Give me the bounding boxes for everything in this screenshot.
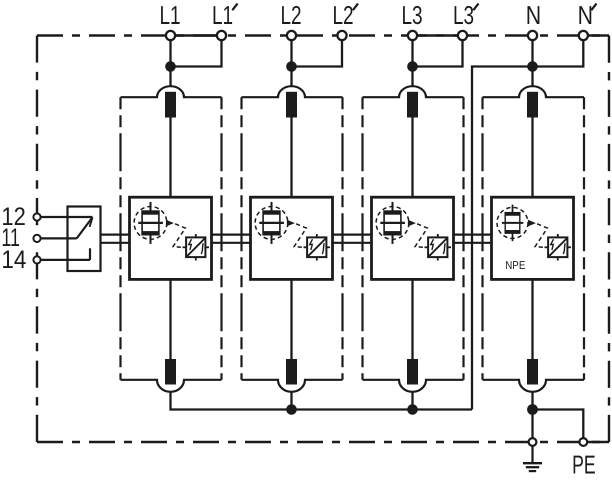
svg-text:L3: L3	[453, 0, 474, 30]
wire module L3 boundary bottom edge with crossover hop	[363, 380, 464, 392]
node bus-L3 junction dot	[407, 404, 418, 415]
wire module N boundary bottom edge with crossover hop	[483, 380, 585, 392]
wire L1 to L1´ terminal link	[171, 34, 222, 36]
wire module L2 output drop	[290, 392, 292, 410]
wire module L1 box to bottom plug contact	[169, 279, 171, 359]
terminal L1´	[217, 31, 226, 40]
disconnector with indication K4 module N	[545, 234, 572, 261]
wire plug contact to module N box	[531, 118, 533, 198]
terminal L3	[408, 31, 417, 40]
wire mechanical coupling lower line	[212, 242, 251, 244]
svg-text:N: N	[578, 0, 593, 30]
node bus-L2 junction dot	[286, 404, 297, 415]
wire plug contact to module L2 box	[290, 118, 292, 198]
svg-text:N: N	[526, 0, 541, 30]
wire module N boundary left side (dashed)	[481, 97, 483, 380]
switch S1 arm tip barb	[90, 217, 93, 227]
terminal L3´	[458, 31, 467, 40]
wire node L1 to module plug contact	[169, 67, 171, 86]
wire node N to module plug contact	[531, 67, 533, 86]
wire module N boundary right side (dashed)	[583, 97, 585, 380]
disconnector with indication K3 module L3	[425, 234, 452, 261]
node L2 junction dot	[286, 61, 297, 72]
ground symbol	[523, 446, 542, 471]
spark gap F4 (triggered, dashed circle) module N	[497, 205, 528, 242]
wire module L2 boundary right side (dashed)	[341, 97, 343, 380]
wire node L3 to module plug contact	[411, 67, 413, 86]
wire N terminal drop	[531, 36, 533, 67]
wire L3 to L3´ terminal link	[413, 34, 463, 36]
contact 14 fixed stub	[89, 248, 91, 260]
disconnector with indication K1 module L1	[183, 234, 210, 261]
plug contact top module L3	[407, 92, 418, 118]
trigger control dashed link module N	[535, 224, 547, 248]
svg-text:L2: L2	[332, 0, 353, 30]
wire module L1 boundary left side (dashed)	[119, 97, 121, 380]
wire module L1 boundary bottom edge with crossover hop	[121, 380, 222, 392]
wire module L3 boundary left side (dashed)	[361, 97, 363, 380]
wire module L3 boundary top edge with crossover hop	[363, 86, 464, 97]
terminal L2´	[337, 31, 346, 40]
wire N´ terminal drop and link to node N	[533, 36, 584, 67]
svg-text:NPE: NPE	[505, 260, 525, 272]
wire module L1 boundary right side (dashed)	[220, 97, 222, 380]
trigger arrow module L2	[287, 220, 295, 227]
terminal 12	[33, 213, 40, 220]
plug contact bottom module L3	[407, 359, 418, 385]
plug contact top module L1	[165, 92, 176, 118]
wire enclosure border left (dash-dot)	[36, 36, 38, 443]
wire terminal 11 lead	[37, 237, 77, 239]
node N junction dot	[527, 61, 538, 72]
terminal 14	[33, 256, 40, 263]
wire mechanical coupling lower line	[101, 242, 130, 244]
wire module L3 boundary right side (dashed)	[462, 97, 464, 380]
terminal L2	[287, 31, 296, 40]
terminal N´	[579, 31, 588, 40]
surge arrester module U1 (L1) box	[130, 197, 212, 279]
trigger arrow module N	[528, 220, 536, 227]
wire mechanical coupling lower line	[333, 242, 372, 244]
wire L2 terminal drop	[290, 36, 292, 67]
plug contact bottom module N	[527, 359, 538, 385]
wire module L3 output drop	[411, 392, 413, 410]
wire module L3 box to bottom plug contact	[411, 279, 413, 359]
trigger control dashed link module L3	[415, 224, 427, 248]
wire earth node to PE terminal	[533, 410, 584, 438]
plug contact top module N	[527, 92, 538, 118]
wire bus riser from bottom bus to node N	[472, 67, 533, 410]
wire plug contact to module L3 box	[411, 118, 413, 198]
wire enclosure border bottom (dash-dot)	[37, 441, 609, 443]
svg-text:L3: L3	[401, 0, 422, 30]
wire enclosure border top (dash-dot)	[37, 34, 609, 36]
wire terminal 12 lead	[37, 216, 93, 218]
terminal 11	[33, 235, 40, 242]
wire mechanical coupling lower line	[454, 242, 492, 244]
terminal N	[528, 31, 537, 40]
plug contact bottom module L1	[165, 359, 176, 385]
wire module L2 boundary top edge with crossover hop	[242, 86, 343, 97]
wire L1 terminal drop	[169, 36, 171, 67]
surge arrester module U3 (L3) box	[372, 197, 454, 279]
switch S1 changeover arm	[77, 217, 93, 238]
wire enclosure border right (dash-dot)	[608, 36, 610, 443]
svg-text:L1: L1	[159, 0, 180, 30]
spark gap F3 (triggered, dashed circle) module L3	[376, 202, 409, 244]
terminal earth (to ground symbol)	[529, 438, 537, 446]
wire mechanical coupling upper line	[101, 234, 130, 236]
svg-text:14: 14	[1, 246, 26, 274]
wire L3 terminal drop	[411, 36, 413, 67]
trigger arrow module L3	[408, 220, 416, 227]
wire node L2 to module plug contact	[290, 67, 292, 86]
wire terminal 14 lead	[37, 259, 90, 261]
wire N-PE arrester output drop	[531, 392, 533, 438]
wire module L2 boundary bottom edge with crossover hop	[242, 380, 343, 392]
wire bottom-right border corner segment (PE to corner)	[583, 441, 609, 443]
wire plug contact to module L1 box	[169, 118, 171, 198]
spark gap F1 (triggered, dashed circle) module L1	[134, 202, 167, 244]
wire top-right border corner segment	[583, 34, 609, 36]
wire module L1 boundary top edge with crossover hop	[121, 86, 222, 97]
wire L3´ terminal drop and link to node L3	[413, 36, 463, 67]
svg-text:L1: L1	[212, 0, 233, 30]
wire module L2 box to bottom plug contact	[290, 279, 292, 359]
svg-text:PE: PE	[572, 449, 596, 479]
trigger control dashed link module L1	[173, 224, 185, 248]
wire L2´ terminal drop and link to node L2	[292, 36, 343, 67]
trigger arrow module L1	[166, 220, 174, 227]
node earth junction dot	[527, 404, 538, 415]
wire mechanical coupling upper line	[212, 234, 251, 236]
wire mechanical coupling upper line	[333, 234, 372, 236]
svg-text:L2: L2	[280, 0, 301, 30]
wire mechanical coupling upper line	[454, 234, 492, 236]
wire module L2 boundary left side (dashed)	[240, 97, 242, 380]
spark gap F2 (triggered, dashed circle) module L2	[255, 202, 288, 244]
terminal L1	[166, 31, 175, 40]
wire bottom bus joining arrester outputs L1 L2 L3	[171, 392, 473, 410]
wire L1´ terminal drop and link to node L1	[171, 36, 222, 67]
disconnector with indication K2 module L2	[304, 234, 331, 261]
wire module N boundary top edge with crossover hop	[483, 86, 585, 97]
plug contact bottom module L2	[286, 359, 297, 385]
switch S1 remote signalling contact box	[68, 207, 101, 272]
surge arrester module U2 (L2) box	[251, 197, 333, 279]
node L3 junction dot	[407, 61, 418, 72]
plug contact top module L2	[286, 92, 297, 118]
node L1 junction dot	[165, 61, 176, 72]
wire module N box to bottom plug contact	[531, 279, 533, 359]
trigger control dashed link module L2	[294, 224, 306, 248]
terminal PE	[579, 438, 587, 446]
surge arrester module U4 (N-PE) box	[492, 197, 574, 279]
